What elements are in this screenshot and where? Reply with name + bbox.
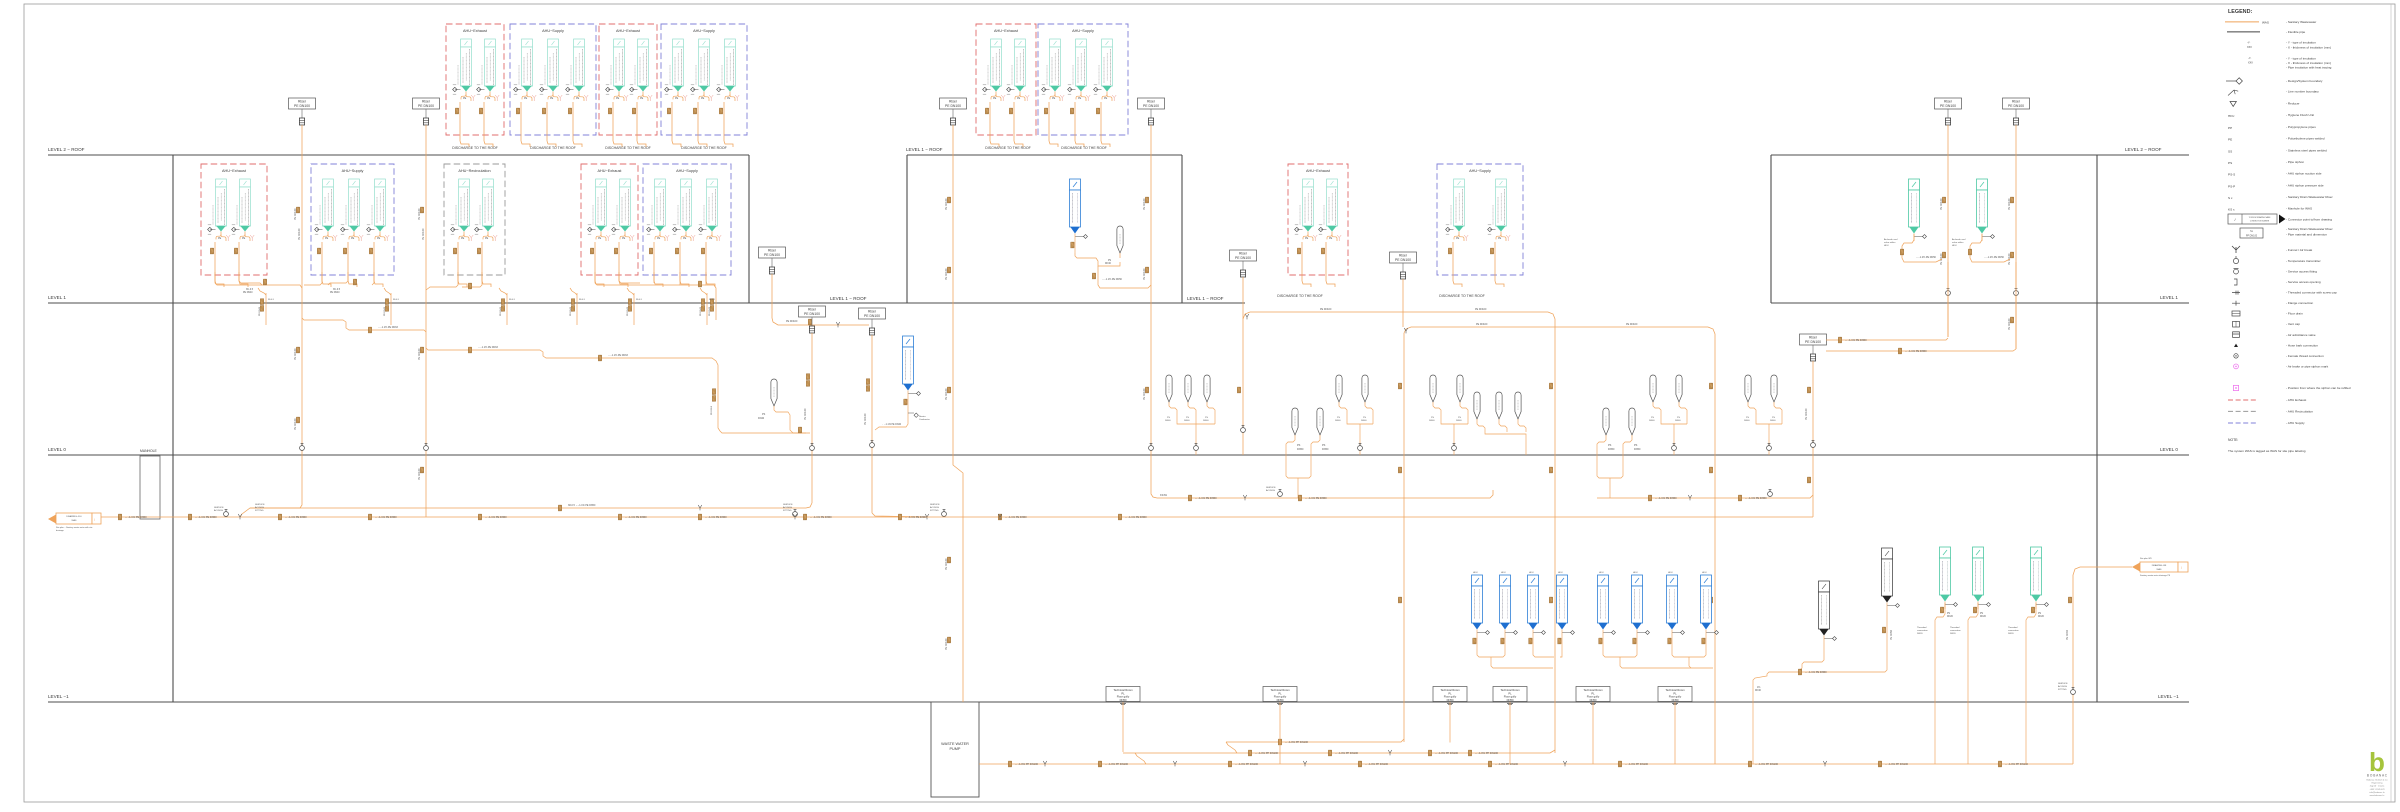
svg-text:Site plan WS: Site plan WS xyxy=(2140,557,2152,560)
svg-text:- X - thickness of insulation: - X - thickness of insulation (mm) xyxy=(2286,46,2331,50)
svg-text:DN40: DN40 xyxy=(1744,420,1750,422)
svg-text:DISCHARGE TO THE ROOF: DISCHARGE TO THE ROOF xyxy=(605,146,651,150)
svg-text:Air break seal: Air break seal xyxy=(1952,238,1966,241)
svg-text:DN40: DN40 xyxy=(1335,420,1341,422)
svg-text:Zagreb · Croatia: Zagreb · Croatia xyxy=(2370,785,2385,788)
svg-text:1%: 1% xyxy=(1757,687,1760,689)
svg-text:WAS: WAS xyxy=(72,519,77,522)
svg-text:←−1.1% PE DN63: ←−1.1% PE DN63 xyxy=(378,326,399,329)
svg-text:PE DN100: PE DN100 xyxy=(2008,318,2011,330)
svg-text:LEVEL 1 − ROOF: LEVEL 1 − ROOF xyxy=(906,147,943,152)
svg-text:connection: connection xyxy=(2008,629,2019,632)
svg-text:LEVEL 2 − ROOF: LEVEL 2 − ROOF xyxy=(48,147,85,152)
svg-text:PE DN100: PE DN100 xyxy=(1143,198,1146,210)
svg-text:LEVEL 0: LEVEL 0 xyxy=(2160,447,2178,452)
svg-text:AHU−Supply: AHU−Supply xyxy=(342,169,364,173)
svg-text:- AHU siphon pressure side: - AHU siphon pressure side xyxy=(2286,183,2324,187)
svg-text:- Sanitary Drain Wastewater Ri: - Sanitary Drain Wastewater Riser xyxy=(2286,195,2333,199)
svg-text:AHU−Supply: AHU−Supply xyxy=(1469,169,1491,173)
svg-text:DN20: DN20 xyxy=(1947,616,1954,618)
svg-text:PS: PS xyxy=(1297,444,1301,447)
svg-text:HFU: HFU xyxy=(1529,572,1534,574)
svg-text:PE DN100: PE DN100 xyxy=(1476,323,1488,326)
svg-text:PE: PE xyxy=(616,97,620,100)
svg-text:PE: PE xyxy=(325,237,329,240)
svg-text:FITTING: FITTING xyxy=(930,510,939,512)
svg-text:- Hose barb connection: - Hose barb connection xyxy=(2286,343,2318,347)
svg-text:- Flexible pipe: - Flexible pipe xyxy=(2286,30,2306,34)
svg-text:drainage: drainage xyxy=(56,530,65,532)
svg-text:- Hygiene Flush Unit: - Hygiene Flush Unit xyxy=(2286,113,2314,117)
svg-text:DN20: DN20 xyxy=(2008,633,2014,635)
svg-text:DN40: DN40 xyxy=(1770,420,1776,422)
svg-text:PE DN100: PE DN100 xyxy=(418,208,421,220)
svg-text:PE DN40: PE DN40 xyxy=(700,306,702,316)
svg-text:DN40: DN40 xyxy=(1675,420,1681,422)
svg-text:DN40: DN40 xyxy=(1649,420,1655,422)
svg-text:PE: PE xyxy=(1017,97,1021,100)
svg-text:LEVEL 1 − ROOF: LEVEL 1 − ROOF xyxy=(830,296,867,301)
svg-text:DN50: DN50 xyxy=(1297,448,1304,451)
svg-text:SERVICE: SERVICE xyxy=(783,504,793,506)
svg-text:SERVICE: SERVICE xyxy=(255,504,265,506)
svg-text:←−1.1% PE DN40: ←−1.1% PE DN40 xyxy=(882,424,902,426)
svg-text:- Line number boundary: - Line number boundary xyxy=(2286,90,2319,94)
svg-text:valve within: valve within xyxy=(1952,241,1964,244)
svg-text:HFU: HFU xyxy=(1952,245,1957,247)
svg-text:- Floor drain: - Floor drain xyxy=(2286,312,2303,316)
svg-text:LEVEL 0: LEVEL 0 xyxy=(48,447,66,452)
svg-text:PE: PE xyxy=(1305,237,1309,240)
svg-text:PE: PE xyxy=(701,97,705,100)
svg-text:PE DN100: PE DN100 xyxy=(945,558,948,570)
svg-text:38-0.5: 38-0.5 xyxy=(636,299,643,301)
svg-text:- Sanitary Wastewater: - Sanitary Wastewater xyxy=(2286,20,2316,24)
svg-text:KS/S9: KS/S9 xyxy=(1160,494,1167,497)
svg-text:PS-P: PS-P xyxy=(2228,184,2235,188)
svg-text:DN40: DN40 xyxy=(1361,420,1367,422)
svg-text:PE DN100: PE DN100 xyxy=(418,468,421,480)
svg-text:ACCESS: ACCESS xyxy=(783,506,793,509)
svg-text:PS-S: PS-S xyxy=(2228,173,2235,177)
svg-text:PS: PS xyxy=(2228,161,2232,165)
svg-text:PE: PE xyxy=(640,97,644,100)
svg-text:DN40: DN40 xyxy=(1429,420,1435,422)
svg-text:PE: PE xyxy=(1104,97,1108,100)
svg-text:DRAWING−R8: DRAWING−R8 xyxy=(2152,564,2167,567)
svg-text:DISCHARGE TO THE ROOF: DISCHARGE TO THE ROOF xyxy=(452,146,498,150)
svg-text:- Pipe material and dimension: - Pipe material and dimension xyxy=(2286,233,2327,237)
svg-text:-Y-: -Y- xyxy=(2248,56,2251,60)
svg-text:PE: PE xyxy=(1498,237,1502,240)
svg-text:PE DN100: PE DN100 xyxy=(294,208,297,220)
svg-text:PE: PE xyxy=(485,237,489,240)
svg-text:PE: PE xyxy=(622,237,626,240)
svg-text:PE: PE xyxy=(218,237,222,240)
svg-text:DN40: DN40 xyxy=(758,417,765,420)
svg-text:- AHU siphon suction side: - AHU siphon suction side xyxy=(2286,172,2322,176)
svg-text:Threaded: Threaded xyxy=(1950,626,1960,629)
svg-text:DN20: DN20 xyxy=(2038,616,2045,618)
svg-text:PE DN50: PE DN50 xyxy=(711,405,713,415)
svg-text:Combustor: Combustor xyxy=(919,418,930,421)
svg-text:PE DN40: PE DN40 xyxy=(384,306,386,316)
svg-text:PE: PE xyxy=(598,237,602,240)
svg-text:PE DN50: PE DN50 xyxy=(1890,629,1893,640)
svg-text:PE DN100: PE DN100 xyxy=(804,408,807,420)
svg-text:Engineering: Engineering xyxy=(2372,783,2383,785)
svg-text:PE: PE xyxy=(1329,237,1333,240)
svg-text:-Y-: -Y- xyxy=(2247,41,2250,45)
svg-text:valve within: valve within xyxy=(1884,241,1896,244)
svg-text:PE: PE xyxy=(550,97,554,100)
svg-text:PE DN100: PE DN100 xyxy=(1626,323,1638,326)
svg-text:DISCHARGE TO THE ROOF: DISCHARGE TO THE ROOF xyxy=(1061,146,1107,150)
svg-text:XXX: XXX xyxy=(2247,46,2252,49)
svg-text:HFU: HFU xyxy=(1633,572,1638,574)
svg-text:PE: PE xyxy=(461,237,465,240)
svg-text:←−1.2% PE DN50: ←−1.2% PE DN50 xyxy=(1916,256,1937,259)
svg-text:38-0.5: 38-0.5 xyxy=(268,299,275,301)
svg-text:HFU: HFU xyxy=(2228,114,2234,118)
svg-text:WAS: WAS xyxy=(2157,568,2162,571)
svg-text:PS: PS xyxy=(2038,613,2042,615)
svg-text:PE DN100: PE DN100 xyxy=(294,348,297,360)
svg-text:TO/FROM DRAWING NAME: TO/FROM DRAWING NAME xyxy=(2249,216,2272,219)
svg-text:- Y - type of insulation: - Y - type of insulation xyxy=(2286,41,2316,45)
svg-text:PE: PE xyxy=(727,97,731,100)
svg-text:ACCESS: ACCESS xyxy=(930,506,940,509)
svg-text:DISCHARGE TO THE ROOF: DISCHARGE TO THE ROOF xyxy=(530,146,576,150)
svg-text:SS: SS xyxy=(2228,149,2232,153)
svg-text:- Flange connection: - Flange connection xyxy=(2286,301,2313,305)
svg-text:←−1.2% PE DN50: ←−1.2% PE DN50 xyxy=(1984,256,2005,259)
svg-text:PE DN40: PE DN40 xyxy=(627,306,629,316)
svg-text:DISCHARGE TO THE ROOF: DISCHARGE TO THE ROOF xyxy=(1277,294,1323,298)
svg-text:DN40: DN40 xyxy=(1456,420,1462,422)
svg-text:- Pipe siphon: - Pipe siphon xyxy=(2286,160,2304,164)
svg-text:LEVEL 1 − ROOF: LEVEL 1 − ROOF xyxy=(1187,296,1224,301)
svg-text:PE DN100: PE DN100 xyxy=(294,418,297,430)
svg-text:AHU−Supply: AHU−Supply xyxy=(1072,29,1094,33)
svg-text:HFU: HFU xyxy=(1599,572,1604,574)
svg-text:PE DN40: PE DN40 xyxy=(709,306,711,316)
svg-text:PP: PP xyxy=(2228,126,2232,130)
svg-text:AHU−Exhaust: AHU−Exhaust xyxy=(598,169,623,173)
svg-text:DISCHARGE TO THE ROOF: DISCHARGE TO THE ROOF xyxy=(1439,294,1485,298)
svg-text:DN50: DN50 xyxy=(1322,448,1329,451)
svg-text:AHU−Exhaust: AHU−Exhaust xyxy=(1306,169,1331,173)
svg-text:PE: PE xyxy=(2228,138,2232,142)
svg-text:LEVEL 2 − ROOF: LEVEL 2 − ROOF xyxy=(2125,147,2162,152)
svg-text:PE DN100: PE DN100 xyxy=(945,638,948,650)
svg-text:38-0.5: 38-0.5 xyxy=(709,299,716,301)
svg-text:FITTING: FITTING xyxy=(255,510,264,512)
svg-text:WAS: WAS xyxy=(2262,20,2269,24)
svg-text:Threaded: Threaded xyxy=(2008,626,2018,629)
svg-text:AHU−Supply: AHU−Supply xyxy=(542,29,564,33)
svg-text:b: b xyxy=(2369,747,2385,777)
svg-text:PE DN40: PE DN40 xyxy=(259,306,261,316)
svg-text:Bobanac Grafisch & Co: Bobanac Grafisch & Co xyxy=(2367,780,2389,782)
svg-text:AHU−Exhaust: AHU−Exhaust xyxy=(463,29,488,33)
svg-text:←−1.1% PE DN63: ←−1.1% PE DN63 xyxy=(608,354,629,357)
svg-text:- Sanitary Drain Wastewater Ri: - Sanitary Drain Wastewater Riser xyxy=(2286,227,2333,231)
svg-text:FITTING: FITTING xyxy=(2058,689,2067,691)
svg-text:- Y - type of insulation: - Y - type of insulation xyxy=(2286,56,2316,60)
svg-text:LEGEND:: LEGEND: xyxy=(2228,9,2252,15)
svg-text:PE DN100: PE DN100 xyxy=(418,348,421,360)
svg-text:- Vent cap: - Vent cap xyxy=(2286,322,2300,326)
svg-text:- Pipe insulation with heat tr: - Pipe insulation with heat tracing xyxy=(2286,66,2332,70)
svg-text:PE: PE xyxy=(657,237,661,240)
svg-text:DISCHARGE TO THE ROOF: DISCHARGE TO THE ROOF xyxy=(681,146,727,150)
svg-text:CONNECTION NUMBER: CONNECTION NUMBER xyxy=(2250,221,2270,223)
svg-text:PP DN100: PP DN100 xyxy=(2246,235,2258,238)
svg-text:- AHU Exhaust: - AHU Exhaust xyxy=(2286,398,2306,402)
svg-text:PE DN40: PE DN40 xyxy=(2066,629,2069,640)
svg-text:PE DN100: PE DN100 xyxy=(1143,268,1146,280)
svg-text:PE DN100: PE DN100 xyxy=(1940,198,1943,210)
svg-text:PE DN40: PE DN40 xyxy=(570,306,572,316)
svg-text:LEVEL 1: LEVEL 1 xyxy=(48,295,66,300)
svg-text:LEVEL −1: LEVEL −1 xyxy=(48,694,69,699)
svg-text:PS: PS xyxy=(1980,613,1984,615)
svg-text:HFU: HFU xyxy=(1702,572,1707,574)
svg-text:PE: PE xyxy=(1456,237,1460,240)
svg-text:PE DN40: PE DN40 xyxy=(243,292,253,294)
svg-text:HFU: HFU xyxy=(1558,572,1563,574)
svg-text:- Threaded connector with scre: - Threaded connector with screw cap xyxy=(2286,291,2337,295)
svg-text:AHU−Exhaust: AHU−Exhaust xyxy=(994,29,1019,33)
svg-text:ACCESS: ACCESS xyxy=(1266,489,1276,492)
svg-text:PS: PS xyxy=(1108,260,1112,262)
svg-text:Threaded: Threaded xyxy=(1917,626,1927,629)
svg-text:SERVICE: SERVICE xyxy=(214,507,224,509)
svg-text:DN20: DN20 xyxy=(1950,633,1956,635)
svg-text:- Design/System boundary: - Design/System boundary xyxy=(2286,79,2323,83)
svg-text:DN20: DN20 xyxy=(1917,633,1923,635)
svg-text:PE DN100: PE DN100 xyxy=(1143,388,1146,400)
svg-text:B O B A N A C: B O B A N A C xyxy=(2367,774,2388,778)
svg-text:PE: PE xyxy=(377,237,381,240)
svg-text:ACCESS: ACCESS xyxy=(255,506,265,509)
svg-text:38−0.5: 38−0.5 xyxy=(333,289,341,291)
svg-text:+385 1 2345 678: +385 1 2345 678 xyxy=(2369,789,2385,791)
svg-text:MANHOLE: MANHOLE xyxy=(140,449,158,453)
svg-text:←−1.1% PE DN50: ←−1.1% PE DN50 xyxy=(1102,278,1123,281)
svg-text:PE: PE xyxy=(524,97,528,100)
svg-text:PE DN40: PE DN40 xyxy=(330,292,340,294)
svg-text:38-0.5 ←−1.1% PE DN50: 38-0.5 ←−1.1% PE DN50 xyxy=(568,504,596,507)
svg-text:PE DN40: PE DN40 xyxy=(500,306,502,316)
svg-text:PE DN100: PE DN100 xyxy=(945,198,948,210)
svg-text:connection: connection xyxy=(1917,629,1928,632)
svg-text:38-0.5: 38-0.5 xyxy=(509,299,516,301)
svg-text:The system WAS is tagged as WA: The system WAS is tagged as WAS for site… xyxy=(2228,449,2306,453)
svg-text:AHU−Recirculation: AHU−Recirculation xyxy=(458,169,490,173)
svg-text:PS: PS xyxy=(1947,613,1951,615)
svg-text:PE DN100: PE DN100 xyxy=(1475,308,1487,311)
svg-text:connection: connection xyxy=(1950,629,1961,632)
svg-text:Air break seal: Air break seal xyxy=(1884,238,1898,241)
svg-text:- Funnel / Air break: - Funnel / Air break xyxy=(2286,248,2313,252)
svg-text:- Polyethylene pipes welded: - Polyethylene pipes welded xyxy=(2286,137,2325,141)
svg-text:- AHU Recirculation: - AHU Recirculation xyxy=(2286,409,2313,413)
svg-text:DN50: DN50 xyxy=(1608,448,1615,451)
svg-text:- Female thread connection: - Female thread connection xyxy=(2286,354,2324,358)
svg-text:DN40: DN40 xyxy=(1105,263,1112,265)
svg-text:HFU: HFU xyxy=(1668,572,1673,574)
svg-text:AHU−Supply: AHU−Supply xyxy=(676,169,698,173)
svg-text:S x: S x xyxy=(2228,196,2233,200)
svg-text:38-0.5: 38-0.5 xyxy=(393,299,400,301)
svg-text:HFU: HFU xyxy=(1473,572,1478,574)
svg-text:DN40: DN40 xyxy=(1165,420,1171,422)
svg-text:DRAWING−R.6: DRAWING−R.6 xyxy=(66,515,82,518)
svg-text:PE: PE xyxy=(463,97,467,100)
svg-text:PUMP: PUMP xyxy=(950,747,961,751)
svg-text:WASTE WATER: WASTE WATER xyxy=(941,742,969,746)
svg-text:SERVICE: SERVICE xyxy=(2058,683,2068,685)
svg-text:PE DN100: PE DN100 xyxy=(864,413,867,425)
svg-text:- Service access opening: - Service access opening xyxy=(2286,280,2321,284)
svg-text:- Connector point to/from draw: - Connector point to/from drawing xyxy=(2286,218,2332,222)
svg-text:/: / xyxy=(94,518,95,522)
svg-text:www.bobanac.hr: www.bobanac.hr xyxy=(2370,795,2385,797)
svg-text:PE DN100: PE DN100 xyxy=(298,228,301,240)
svg-text:AHU−Exhaust: AHU−Exhaust xyxy=(616,29,641,33)
svg-text:- Polypropylene pipes: - Polypropylene pipes xyxy=(2286,125,2316,129)
svg-text:ACCESS: ACCESS xyxy=(2058,685,2068,688)
svg-text:- X - thickness of insulation: - X - thickness of insulation (mm) xyxy=(2286,61,2331,65)
svg-text:PE: PE xyxy=(351,237,355,240)
svg-text:- Reducer: - Reducer xyxy=(2286,101,2300,105)
svg-text:PE DN100: PE DN100 xyxy=(1320,308,1332,311)
svg-text:PE DN100: PE DN100 xyxy=(786,320,798,323)
svg-text:HFU: HFU xyxy=(1501,572,1506,574)
svg-text:LEVEL 1: LEVEL 1 xyxy=(2160,295,2178,300)
svg-text:DN40: DN40 xyxy=(1184,420,1190,422)
svg-text:- Manhole for WAS: - Manhole for WAS xyxy=(2286,207,2312,211)
svg-text:AHU−Exhaust: AHU−Exhaust xyxy=(222,169,247,173)
svg-text:LEVEL −1: LEVEL −1 xyxy=(2158,694,2179,699)
svg-text:PE: PE xyxy=(576,97,580,100)
svg-text:PE: PE xyxy=(675,97,679,100)
svg-text:- Air admittance valve: - Air admittance valve xyxy=(2286,333,2316,337)
svg-text:DN20: DN20 xyxy=(1980,616,1987,618)
svg-text:PE: PE xyxy=(1052,97,1056,100)
svg-text:- Temperature transmitter: - Temperature transmitter xyxy=(2286,259,2321,263)
svg-text:DN40: DN40 xyxy=(1755,690,1762,692)
svg-text:HFU: HFU xyxy=(1884,245,1889,247)
svg-text:- Stainless steel pipes welded: - Stainless steel pipes welded xyxy=(2286,148,2327,152)
svg-text:/: / xyxy=(2181,566,2182,570)
svg-text:PE: PE xyxy=(487,97,491,100)
svg-text:info@bobanac.hr: info@bobanac.hr xyxy=(2369,792,2385,794)
svg-text:PE DN100: PE DN100 xyxy=(945,268,948,280)
svg-text:DN50: DN50 xyxy=(1634,448,1641,451)
svg-text:- Position from where the siph: - Position from where the siphon can be … xyxy=(2286,386,2351,390)
svg-text:PS: PS xyxy=(1322,444,1326,447)
svg-text:PE: PE xyxy=(242,237,246,240)
svg-text:- AHU Supply: - AHU Supply xyxy=(2286,421,2305,425)
svg-text:- Air brake or pipe siphon mar: - Air brake or pipe siphon mark xyxy=(2286,364,2329,368)
svg-text:PE: PE xyxy=(1078,97,1082,100)
svg-text:PE DN100: PE DN100 xyxy=(945,388,948,400)
svg-text:DISCHARGE TO THE ROOF: DISCHARGE TO THE ROOF xyxy=(985,146,1031,150)
svg-text:NOTE:: NOTE: xyxy=(2228,438,2238,442)
svg-text:ACCESS: ACCESS xyxy=(214,509,224,512)
svg-text:PS: PS xyxy=(1634,444,1638,447)
svg-text:- Service access fitting: - Service access fitting xyxy=(2286,270,2317,274)
svg-text:PE DN100: PE DN100 xyxy=(2008,198,2011,210)
svg-text:38-0.5: 38-0.5 xyxy=(579,299,586,301)
svg-text:AHU−Supply: AHU−Supply xyxy=(693,29,715,33)
svg-text:38−0.5: 38−0.5 xyxy=(246,289,254,291)
svg-text:PE: PE xyxy=(709,237,713,240)
svg-text:DN40: DN40 xyxy=(1203,420,1209,422)
svg-text:PE DN100: PE DN100 xyxy=(422,228,425,240)
svg-text:PE: PE xyxy=(993,97,997,100)
svg-text:Sanitary waste water drainage: Sanitary waste water drainage PS xyxy=(2140,574,2171,577)
svg-text:Neutra: Neutra xyxy=(919,415,926,418)
svg-text:SERVICE: SERVICE xyxy=(930,504,940,506)
svg-text:PE: PE xyxy=(683,237,687,240)
svg-text:FITTING: FITTING xyxy=(783,510,792,512)
svg-text:PE DN100: PE DN100 xyxy=(1805,408,1808,420)
svg-text:PS: PS xyxy=(762,413,766,416)
svg-text:SERVICE: SERVICE xyxy=(1266,487,1276,489)
svg-text:KS x: KS x xyxy=(2228,208,2235,212)
svg-text:XXX: XXX xyxy=(2248,62,2253,65)
svg-text:PS: PS xyxy=(1608,444,1612,447)
svg-text:←−1.1% PE DN63: ←−1.1% PE DN63 xyxy=(478,346,499,349)
svg-text:Site plan − Sanitary waste wat: Site plan − Sanitary waste water with si… xyxy=(56,526,93,529)
